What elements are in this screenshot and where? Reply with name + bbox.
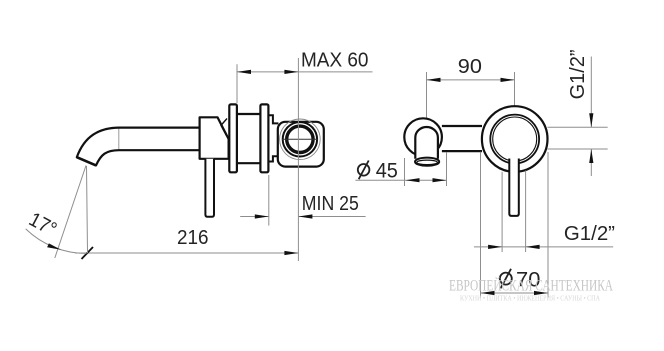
handle cone wedge detail	[221, 119, 227, 136]
svg-text:90: 90	[458, 56, 482, 78]
vertical construction line from spout mouth	[87, 166, 88, 253]
216 oblique tick	[82, 247, 94, 259]
bottom G1/2 right arrow	[526, 245, 540, 249]
side G1/2 dimension upper segment	[590, 57, 592, 128]
body cylinder between flanges	[237, 114, 261, 163]
svg-text:КУХНИ • ПЛИТКА • ИНЖЕНЕРИЯ • С: КУХНИ • ПЛИТКА • ИНЖЕНЕРИЯ • САУНЫ • СПА	[460, 294, 600, 303]
spout tube front (U shape)	[415, 127, 438, 159]
dia45 right extension line	[446, 152, 448, 186]
90 right arrow	[501, 78, 515, 82]
dia45 left extension line	[404, 158, 406, 186]
svg-text:G1/2”: G1/2”	[564, 223, 615, 245]
dia70 diameter symbol	[500, 273, 512, 285]
port inner ring	[287, 126, 313, 152]
connector tube	[442, 126, 482, 151]
dia45 right arrow	[433, 178, 447, 182]
angle arc arrow	[47, 243, 61, 249]
spout escutcheon circle	[404, 118, 442, 156]
MIN 25 left arrow	[255, 214, 269, 218]
MAX 60 left arrow	[237, 70, 251, 74]
bottom G1/2 left arrow	[488, 245, 502, 249]
MAX 60 left extension line	[236, 64, 238, 103]
handle escutcheon pentagon	[200, 117, 229, 159]
90 left extension line	[426, 72, 428, 129]
port crosshair horizontal	[282, 138, 318, 140]
main body outer circle	[482, 106, 548, 172]
spout mouth outer ellipse	[415, 158, 439, 166]
216 dimension line	[75, 252, 298, 254]
dia45 dimension line	[355, 179, 447, 181]
handle rod (front view)	[509, 159, 519, 216]
slanted 17-degree construction line	[55, 166, 86, 259]
90 dimension line	[427, 79, 515, 81]
dia45 diameter symbol	[358, 164, 370, 176]
dia70 right arrow	[534, 291, 548, 295]
long vertical extension line through port center	[297, 58, 299, 261]
side G1/2 dimension lower segment	[590, 149, 592, 176]
side G1/2 upper arrow	[589, 113, 593, 127]
MIN 25 dimension line left tail	[240, 216, 269, 218]
bottom G1/2 dimension line	[474, 246, 613, 248]
90 right extension line	[514, 72, 516, 106]
side G1/2 lower arrow	[589, 149, 593, 163]
svg-text:MAX 60: MAX 60	[301, 50, 369, 72]
connection block	[278, 122, 324, 167]
port outer ring	[283, 122, 317, 156]
MAX 60 right arrow	[284, 70, 298, 74]
side port upper line	[548, 126, 608, 128]
MIN 25 left extension line	[268, 175, 270, 226]
svg-text:45: 45	[376, 160, 398, 183]
wall flange 1	[229, 104, 237, 172]
spout mouth face	[77, 157, 96, 165]
port thin circle	[280, 119, 321, 160]
svg-text:216: 216	[177, 227, 209, 249]
svg-text:G1/2”: G1/2”	[567, 49, 589, 99]
side port lower line	[548, 148, 608, 150]
dia70 left extension line	[480, 152, 482, 298]
wall flange 2	[260, 104, 268, 172]
handle base circle inner	[493, 117, 537, 161]
dia70 dimension line	[481, 292, 549, 294]
bottom port left extension line	[501, 172, 503, 252]
dia45 left arrow	[406, 178, 420, 182]
handle base circle outer	[490, 115, 539, 164]
90 left arrow	[427, 78, 441, 82]
MIN 25 dimension line right tail	[298, 216, 365, 218]
angle dimension arc	[26, 229, 87, 254]
bottom port right extension line	[525, 171, 527, 253]
dia70 right extension line	[547, 152, 549, 298]
handle rod (side view)	[205, 159, 214, 217]
MIN 25 right arrow	[298, 214, 312, 218]
svg-text:ЕВРОПЕЙСКАЯ САНТЕХНИКА: ЕВРОПЕЙСКАЯ САНТЕХНИКА	[449, 275, 613, 294]
216 right arrow	[284, 251, 298, 255]
stepped collar right of flange 2	[268, 115, 278, 161]
spout seam line	[118, 128, 120, 150]
spout outline	[77, 128, 200, 166]
spout mouth inner ellipse	[417, 160, 438, 165]
svg-text:MIN 25: MIN 25	[302, 193, 359, 215]
MAX 60 dimension line	[237, 71, 373, 73]
dia70 left arrow	[481, 291, 495, 295]
